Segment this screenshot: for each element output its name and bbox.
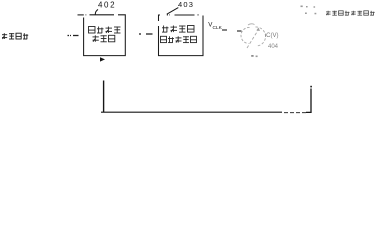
note top-right faint marks line1 xyxy=(301,6,316,8)
note top-right text line2: clock signal destination (glyph clusters) xyxy=(326,11,375,15)
junction dot at top of right vertical xyxy=(310,86,312,88)
block 402 text line1 (glyph clusters) xyxy=(89,27,121,34)
wire: VCLK to varactor (eroded dashes) xyxy=(222,30,242,31)
note top-right text line2 leading faint marks xyxy=(305,13,316,15)
node IN: input signal label (drawn glyph clusters) xyxy=(2,33,28,39)
wire: input wire (eroded dashes) into block 402 xyxy=(68,35,79,37)
arrowhead under block 402 (feedback into block) xyxy=(100,57,105,61)
wire: feedback left vertical xyxy=(103,81,105,113)
svg-text:402: 402 xyxy=(98,1,116,10)
varactor bottom stub / ground lead xyxy=(251,55,253,57)
block 403: clock output driver box xyxy=(159,15,204,56)
block 402: clock signal generator box xyxy=(78,15,126,56)
svg-text:ıC(V): ıC(V) xyxy=(265,33,279,39)
wire: feedback right vertical with corner xyxy=(306,89,311,113)
block 402 text line2 (glyph clusters) xyxy=(93,35,115,42)
svg-text:CLK: CLK xyxy=(213,25,223,31)
block 403 text line2 (glyph clusters) xyxy=(161,36,197,42)
varactor C(V) symbol (circle with arrow), component 404 xyxy=(241,24,266,48)
wire: feedback bottom horizontal xyxy=(101,111,282,113)
wire: feedback bottom dashed portion xyxy=(284,112,306,114)
wire: 402 to 403 (eroded) xyxy=(139,33,153,35)
svg-text:403: 403 xyxy=(178,0,194,9)
block 403 text line1 (glyph clusters) xyxy=(162,26,194,33)
svg-text:404: 404 xyxy=(268,44,279,50)
